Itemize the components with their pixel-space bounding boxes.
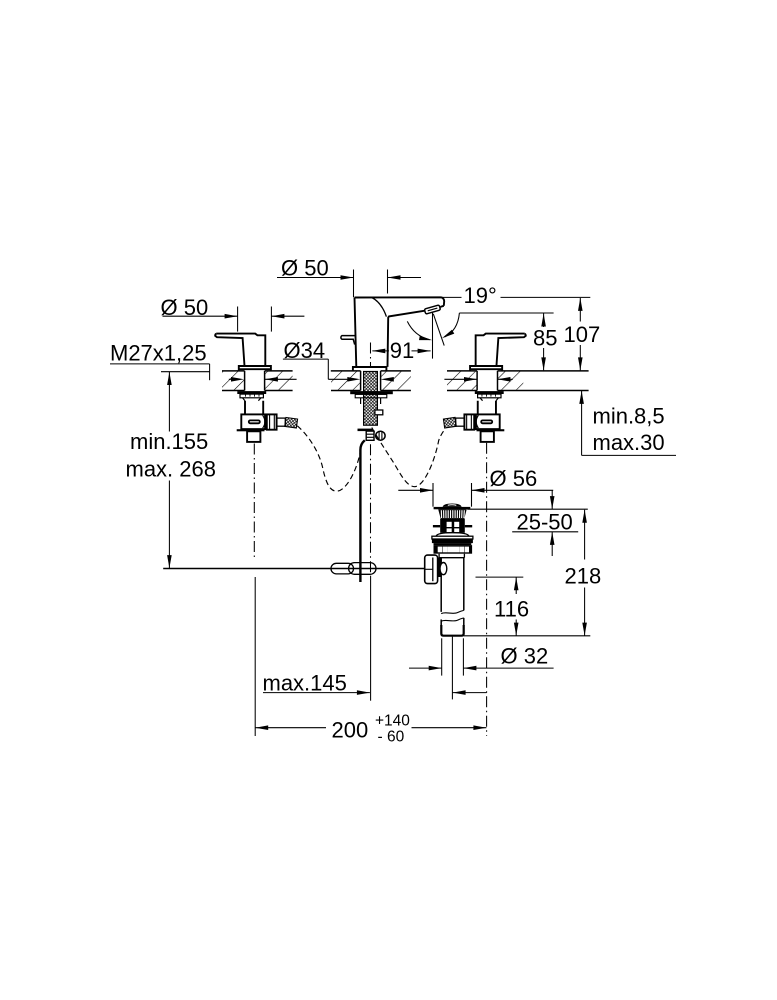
svg-text:- 60: - 60	[378, 729, 405, 746]
svg-text:Ø 56: Ø 56	[490, 466, 538, 491]
svg-text:107: 107	[564, 322, 601, 347]
svg-text:91: 91	[390, 338, 414, 363]
svg-text:Ø 50: Ø 50	[281, 255, 329, 280]
svg-text:Ø 32: Ø 32	[501, 644, 549, 669]
svg-text:M27x1,25: M27x1,25	[110, 340, 207, 365]
svg-text:max. 268: max. 268	[126, 456, 217, 481]
svg-text:218: 218	[565, 563, 602, 588]
svg-text:max.30: max.30	[593, 430, 665, 455]
svg-text:19°: 19°	[464, 283, 497, 308]
svg-text:85: 85	[533, 326, 557, 351]
svg-text:min.155: min.155	[130, 429, 208, 454]
svg-text:116: 116	[494, 597, 529, 622]
svg-text:+140: +140	[375, 713, 410, 730]
svg-text:Ø 50: Ø 50	[161, 295, 209, 320]
svg-text:max.145: max.145	[263, 670, 347, 695]
svg-text:Ø34: Ø34	[284, 338, 326, 363]
svg-text:200: 200	[332, 718, 369, 743]
svg-text:25-50: 25-50	[517, 510, 573, 535]
svg-text:min.8,5: min.8,5	[593, 404, 665, 429]
